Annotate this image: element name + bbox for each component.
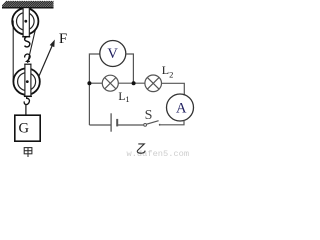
pulley P2 bottom hook	[24, 96, 29, 104]
wire: L2 to ammeter	[162, 83, 185, 95]
ceiling line	[2, 7, 54, 9]
pulley P2 bracket	[24, 64, 32, 97]
force F arrow	[39, 40, 55, 77]
svg-text:S: S	[145, 108, 153, 123]
label yi (乙)	[137, 144, 145, 153]
svg-text:L1: L1	[118, 91, 129, 104]
pulley P1 bracket	[22, 8, 30, 37]
pulley P1 axle dot	[24, 20, 27, 23]
pulley P2 inner wheel	[18, 73, 36, 91]
wire: voltmeter right lead	[126, 54, 134, 83]
wire rope left vertical	[12, 21, 14, 83]
wire rope right diagonal	[28, 30, 36, 64]
wire: main line	[89, 82, 102, 84]
svg-text:G: G	[19, 120, 30, 136]
ammeter A1	[167, 94, 194, 121]
pulley P1 (fixed) outer wheel	[12, 8, 38, 34]
pulley P2 axle dot	[26, 80, 29, 83]
junction node mid	[132, 81, 136, 85]
svg-text:A: A	[176, 101, 187, 117]
svg-text:V: V	[107, 46, 118, 62]
svg-text:w.dafen5.com: w.dafen5.com	[127, 149, 190, 159]
wire: battery to switch	[117, 124, 143, 126]
wire: bottom left	[89, 124, 111, 126]
svg-text:F: F	[59, 31, 67, 47]
lamp L2	[145, 75, 162, 92]
svg-text:L2: L2	[162, 63, 174, 79]
link hook to weight	[25, 105, 27, 115]
pulley P2 (movable) outer wheel	[13, 68, 39, 94]
battery B1 short plate	[116, 119, 118, 127]
switch S contact	[159, 124, 161, 126]
switch S pivot	[144, 124, 147, 127]
wire: voltmeter left lead	[89, 54, 100, 125]
voltmeter V1	[100, 41, 126, 67]
lamp L1	[102, 75, 118, 91]
junction node left	[87, 81, 91, 85]
pulley P1 hook	[25, 37, 30, 47]
label jia (甲)	[24, 148, 32, 157]
wire: switch to ammeter	[161, 121, 184, 125]
switch S lever	[147, 121, 159, 125]
battery B1 long plate	[110, 113, 112, 131]
weight G box	[15, 115, 40, 141]
movable pulley top hook	[25, 54, 30, 61]
ceiling hatching	[0, 1, 59, 8]
pulley P1 inner wheel	[17, 12, 35, 30]
